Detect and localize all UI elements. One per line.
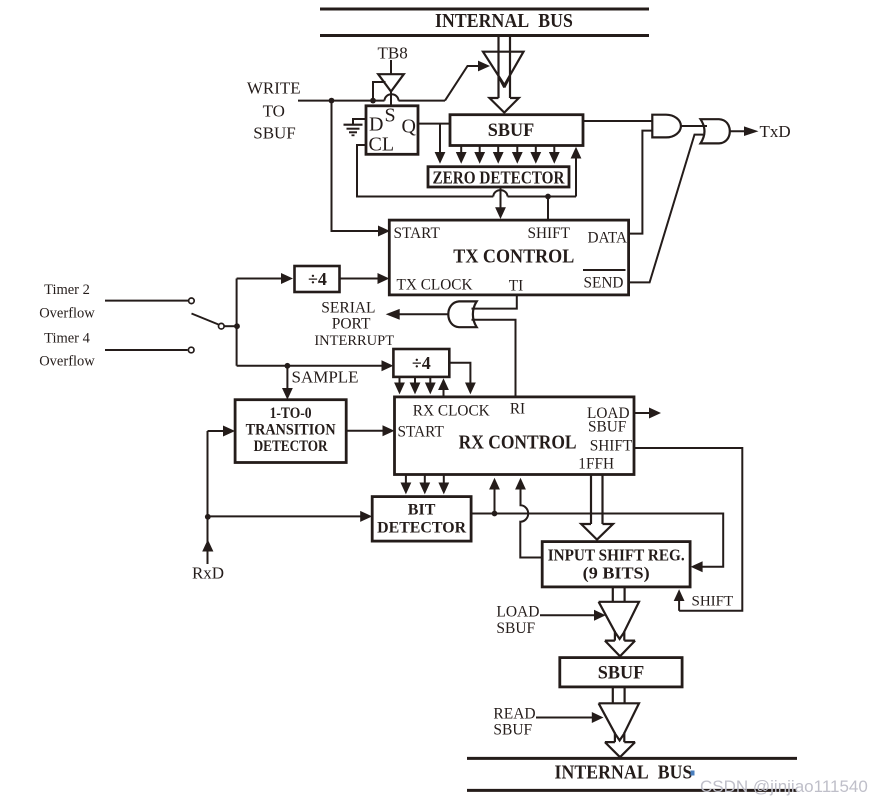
RX control block	[395, 397, 635, 475]
svg-text:SERIAL: SERIAL	[321, 300, 375, 317]
OR gate G2	[701, 119, 730, 143]
buffer U4 (load sbuf gate)	[599, 602, 639, 632]
wire shift reg to load buffer (hollow bus)	[605, 587, 635, 656]
1-to-0 transition detector block	[235, 400, 346, 463]
svg-text:Overflow: Overflow	[39, 306, 95, 322]
internal bus (top rail)	[320, 9, 649, 36]
wire bit detector output up to RX control	[489, 478, 500, 514]
svg-text:DATA: DATA	[588, 230, 628, 247]
wire read sbuf to buffer	[536, 712, 604, 723]
switch SW1 pole	[219, 323, 225, 329]
svg-text:CSDN @jinjiao111540: CSDN @jinjiao111540	[700, 777, 868, 796]
svg-text:TX CLOCK: TX CLOCK	[397, 277, 473, 294]
node sample junction	[285, 363, 291, 369]
node bit detector output junction	[492, 511, 498, 517]
wire bus-to-buffer (hollow bus arrow shaft)	[490, 37, 519, 113]
zero detector	[428, 167, 569, 188]
node tb8-enable junction	[370, 98, 376, 104]
wire trunk to divider /4 (tx)	[237, 273, 293, 284]
node write junction	[329, 98, 335, 104]
wire transition detector to RX start	[346, 425, 394, 436]
wire clock trunk	[236, 279, 238, 366]
svg-text:÷4: ÷4	[308, 269, 327, 289]
svg-text:SHIFT: SHIFT	[528, 225, 571, 242]
wire OR to TxD	[730, 126, 759, 136]
ground	[344, 119, 367, 135]
wire Q branch down to zero detector	[435, 124, 446, 164]
buffer U1 (write gate triangle)	[483, 52, 524, 85]
svg-text:SBUF: SBUF	[493, 722, 532, 739]
wire RxD input column	[202, 431, 213, 564]
svg-text:1-TO-0: 1-TO-0	[270, 405, 312, 422]
svg-text:INTERRUPT: INTERRUPT	[314, 333, 394, 349]
wire TI to interrupt OR	[472, 295, 517, 309]
wire enable stub to TB8 gate	[373, 82, 386, 101]
svg-text:RxD: RxD	[192, 564, 224, 583]
svg-text:RX CONTROL: RX CONTROL	[459, 433, 577, 454]
wire write-to-bus-buffer enable	[445, 61, 490, 101]
svg-text:1FFH: 1FFH	[578, 456, 614, 473]
svg-text:SBUF: SBUF	[588, 419, 626, 436]
svg-text:SAMPLE: SAMPLE	[292, 368, 359, 387]
wires SBUF to zero detector (6 arrows)	[456, 146, 560, 164]
wire rxd to bit detector	[208, 511, 373, 522]
svg-text:SBUF: SBUF	[598, 664, 645, 684]
svg-text:TO: TO	[263, 102, 285, 121]
wire divider to TX clock	[341, 273, 390, 284]
OR gate G3 (serial port interrupt)	[448, 301, 476, 327]
svg-text:Timer 2: Timer 2	[44, 282, 90, 298]
wire WRITE TO SBUF (with hop over TB8 gate output)	[298, 94, 445, 100]
wire RX shift to input shift register	[634, 448, 742, 611]
svg-text:SHIFT: SHIFT	[590, 438, 633, 455]
wire shift junction to TX control	[547, 197, 549, 220]
wire input-shift-reg line up to RX control (with hop)	[515, 478, 542, 558]
svg-text:S: S	[385, 105, 396, 127]
svg-text:DETECTOR: DETECTOR	[377, 520, 466, 537]
TX control block	[389, 220, 628, 295]
svg-text:INTERNAL BUS: INTERNAL BUS	[435, 11, 573, 32]
READ SBUF label	[493, 706, 535, 739]
wires RX control to bit detector (3 arrows)	[401, 475, 450, 495]
switch SW1 blade	[192, 314, 219, 325]
wire Q output to SBUF	[418, 123, 450, 125]
wire trunk to rx sample line	[237, 360, 394, 371]
bit detector block	[372, 497, 471, 541]
node shift junction	[545, 194, 551, 200]
LOAD SBUF label (left)	[496, 604, 539, 638]
wire DATA to AND gate	[629, 131, 653, 234]
watermark	[691, 771, 868, 797]
svg-text:ZERO DETECTOR: ZERO DETECTOR	[433, 168, 566, 188]
svg-text:DETECTOR: DETECTOR	[254, 438, 328, 455]
wire bit detector to input shift register	[471, 514, 723, 573]
svg-text:Timer 4: Timer 4	[44, 331, 91, 347]
svg-text:÷4: ÷4	[412, 353, 431, 373]
svg-text:START: START	[394, 225, 441, 242]
WRITE TO SBUF label	[247, 79, 301, 143]
buffer U5 (read sbuf gate)	[599, 703, 639, 733]
wire SBUF to AND gate	[583, 120, 652, 122]
svg-text:SEND: SEND	[584, 275, 624, 292]
svg-text:SBUF: SBUF	[488, 121, 535, 141]
wire 1FFH bus to input shift register (hollow arrow)	[581, 475, 613, 540]
wire RX control feedback up to divider	[438, 378, 449, 397]
Timer 2 Overflow label	[39, 282, 95, 322]
TB8 label	[377, 44, 407, 63]
internal bus (bottom rail)	[467, 758, 797, 790]
node rxd junction	[205, 514, 211, 520]
switch SW1 throw B	[188, 347, 194, 353]
svg-text:INTERNAL BUS: INTERNAL BUS	[555, 763, 693, 784]
wire RI to interrupt OR	[472, 320, 516, 397]
svg-text:BIT: BIT	[408, 502, 436, 519]
svg-text:SHIFT: SHIFT	[692, 594, 734, 610]
Timer 4 Overflow label	[39, 331, 95, 370]
wire rxd to transition detector	[208, 426, 236, 437]
svg-text:SBUF: SBUF	[496, 620, 535, 637]
wire SEND to OR gate	[629, 135, 703, 283]
svg-text:TI: TI	[509, 278, 523, 295]
divider /4 (receive)	[393, 349, 449, 377]
wire load sbuf to buffer	[540, 610, 606, 621]
buffer U2 (TB8 gate)	[378, 60, 404, 106]
wire write-to-start (down left side)	[332, 101, 391, 237]
svg-text:INPUT SHIFT REG.: INPUT SHIFT REG.	[548, 546, 685, 565]
wire zero-detector feedback up into SBUF	[571, 147, 582, 197]
wire timer2 overflow	[105, 300, 188, 302]
node clock trunk junction	[234, 323, 240, 329]
svg-text:RX CLOCK: RX CLOCK	[413, 403, 490, 420]
svg-text:PORT: PORT	[332, 316, 371, 333]
SERIAL PORT INTERRUPT label	[314, 300, 394, 350]
svg-text:CL: CL	[369, 134, 395, 156]
svg-text:(9 BITS): (9 BITS)	[583, 564, 650, 583]
svg-text:D: D	[369, 114, 383, 136]
svg-text:WRITE: WRITE	[247, 79, 301, 98]
wire sbuf to read buffer (hollow bus)	[605, 687, 635, 757]
register SBUF (transmit)	[450, 115, 583, 146]
input shift register block	[542, 542, 690, 587]
svg-text:TRANSITION: TRANSITION	[246, 422, 336, 439]
register SBUF (receive)	[560, 658, 682, 687]
svg-text:Overflow: Overflow	[39, 354, 95, 370]
wire load sbuf output	[634, 408, 661, 419]
wire interrupt output	[386, 309, 449, 320]
wire zero detector output to TX control	[495, 187, 506, 219]
svg-text:TxD: TxD	[760, 122, 791, 141]
svg-text:LOAD: LOAD	[496, 604, 539, 621]
wire switch pole to clock trunk	[225, 325, 237, 327]
wire timer4 overflow	[105, 349, 188, 351]
svg-text:READ: READ	[493, 706, 535, 723]
wires divider to RX clock (3 arrows)	[394, 377, 436, 395]
divider /4 (transmit)	[295, 266, 340, 292]
wire AND to OR	[681, 125, 707, 127]
svg-text:Q: Q	[402, 116, 417, 138]
wire divider out loop to RX control	[449, 363, 476, 395]
svg-text:RI: RI	[510, 401, 525, 418]
svg-text:TX CONTROL: TX CONTROL	[453, 247, 574, 268]
flip-flop U3 (TB8 latch D/S/Q/CL)	[366, 105, 418, 156]
svg-text:START: START	[398, 424, 445, 441]
svg-text:TB8: TB8	[377, 44, 407, 63]
AND gate G1	[652, 115, 681, 138]
svg-text:SBUF: SBUF	[253, 124, 296, 143]
wire sample to transition detector	[282, 366, 293, 400]
wire CL to shift line (with hop over zero-detector output)	[357, 145, 576, 197]
switch SW1 throw A	[189, 298, 195, 304]
